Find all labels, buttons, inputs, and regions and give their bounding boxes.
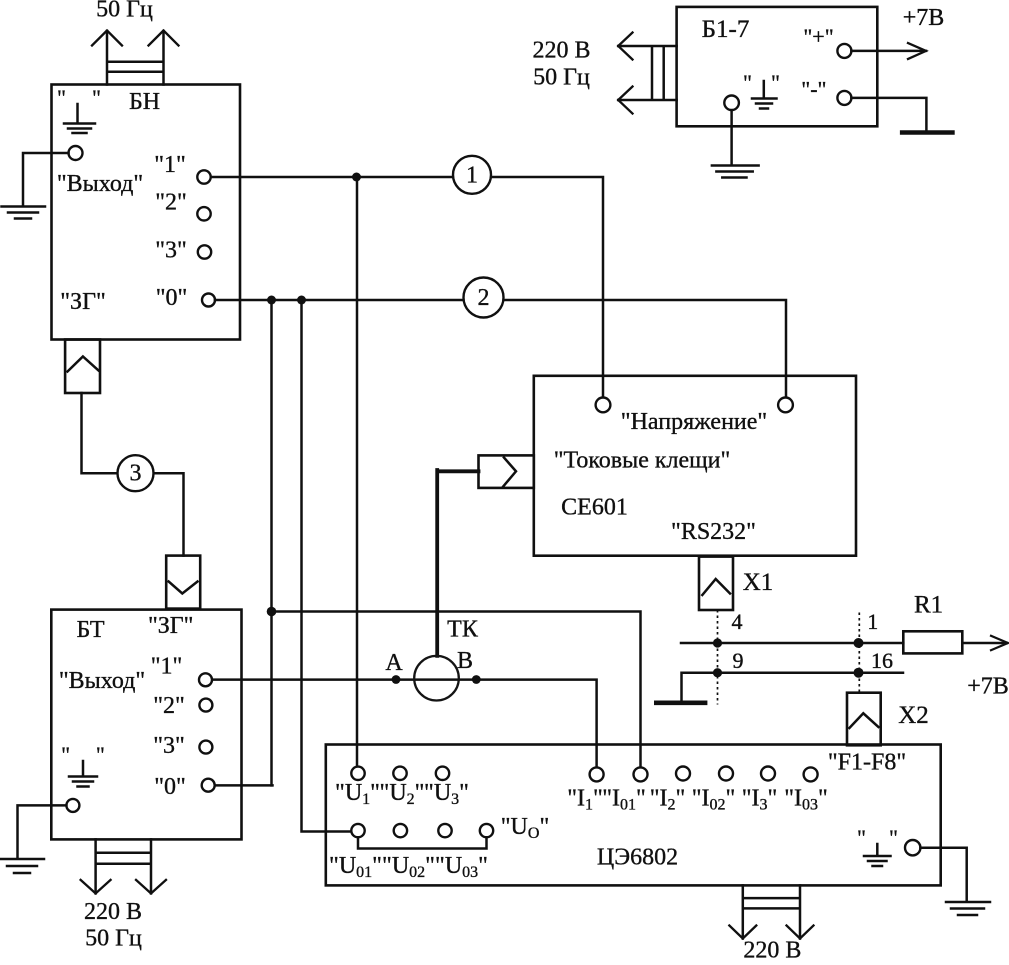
svg-text:"Выход": "Выход" (59, 668, 145, 694)
junction pin 16 (854, 668, 864, 678)
svg-text:"RS232": "RS232" (671, 519, 756, 545)
terminal 0 БН (202, 294, 215, 307)
junction on wire 1 (352, 173, 361, 182)
terminal U1 (351, 767, 364, 780)
svg-text:+7В: +7В (903, 5, 945, 31)
ground symbol inside ЦЭ6802 with quotes (857, 825, 898, 866)
terminal Напряжение-2 (778, 398, 793, 413)
svg-text:16: 16 (871, 648, 893, 673)
cable 220В 50Гц into Б1-7 (618, 33, 676, 114)
junction 0-b (297, 296, 306, 305)
svg-text:1: 1 (466, 163, 478, 189)
svg-text:"3": "3" (155, 238, 187, 264)
junction pin 9 (713, 668, 722, 677)
svg-text:": " (743, 70, 752, 95)
connector X1 (699, 557, 733, 610)
svg-text:"2": "2" (155, 190, 187, 216)
terminal U2 (393, 767, 406, 780)
svg-text:": " (857, 825, 866, 850)
current clamp ТК circle (414, 656, 459, 701)
svg-text:"0": "0" (154, 774, 186, 800)
svg-text:"Напряжение": "Напряжение" (621, 409, 767, 435)
svg-text:"1": "1" (151, 654, 183, 680)
svg-text:"U01": "U01" (329, 853, 382, 881)
svg-text:"0": "0" (156, 285, 188, 311)
link U01 to U0 (358, 837, 487, 848)
svg-text:": " (61, 742, 70, 767)
wire БТ-0 to vertical (215, 784, 273, 787)
terminal U03 (438, 824, 451, 837)
svg-text:"ЗГ": "ЗГ" (148, 613, 194, 639)
terminal I02 (719, 767, 733, 781)
junction at 271,611 (267, 607, 277, 617)
terminal 1 БТ (199, 673, 212, 686)
svg-text:50 Гц: 50 Гц (533, 65, 590, 91)
wire БН-1 to СЕ601 Напряжение (211, 177, 603, 398)
junction pin 4 (713, 638, 722, 647)
svg-text:"3": "3" (153, 733, 185, 759)
svg-text:"F1-F8": "F1-F8" (828, 750, 906, 776)
svg-text:3: 3 (130, 461, 142, 487)
wire junction 0-a down to БТ-0 (270, 300, 273, 785)
svg-text:": " (771, 70, 780, 95)
svg-text:+7В: +7В (967, 674, 1009, 700)
wire pin9 to pin16 (682, 673, 904, 701)
svg-text:ТК: ТК (447, 617, 479, 643)
svg-text:"Токовые клещи": "Токовые клещи" (554, 448, 731, 474)
svg-text:"1": "1" (154, 152, 186, 178)
chassis terminal БТ (66, 799, 79, 812)
wire junction 1 down to U1 (356, 177, 359, 767)
node A dot (392, 675, 401, 684)
meter circle 3 (118, 455, 154, 491)
wire ЦЭ6802 chassis to ground (920, 848, 966, 900)
svg-text:X1: X1 (743, 569, 774, 596)
svg-text:": " (96, 742, 105, 767)
wire Б1-7 chassis to ground (730, 110, 733, 164)
meter circle 2 (464, 278, 504, 318)
svg-text:"U03": "U03" (435, 853, 488, 881)
node B dot (472, 675, 481, 684)
svg-text:220 В: 220 В (743, 938, 801, 961)
svg-text:220 В: 220 В (532, 38, 590, 64)
svg-text:"I2": "I2" (650, 786, 686, 814)
svg-text:9: 9 (733, 648, 744, 673)
wire СЕ601 token clamps connector to ТК (437, 470, 478, 656)
svg-text:1: 1 (867, 609, 878, 634)
wire БН chassis to ground (23, 153, 69, 205)
БН chassis terminal (69, 146, 83, 160)
terminal U3 (436, 767, 449, 780)
wire БТ chassis to ground (18, 805, 67, 857)
block СЕ601 (534, 376, 856, 556)
svg-text:"U3": "U3" (424, 780, 469, 808)
wire junction 0-b down to U01 (302, 300, 352, 832)
meter circle 1 (453, 156, 491, 194)
terminal 0 БТ (202, 779, 215, 792)
chassis terminal Б1-7 (724, 96, 739, 111)
svg-text:СЕ601: СЕ601 (561, 495, 628, 521)
svg-text:"U2": "U2" (380, 780, 425, 808)
svg-text:4: 4 (732, 609, 743, 634)
connector Токовые клещи (left of СЕ601) (479, 455, 534, 488)
svg-text:": " (57, 85, 66, 110)
chassis terminal ЦЭ6802 (905, 840, 920, 855)
terminal I01 (634, 767, 648, 781)
cable 220В out of БТ bottom (81, 839, 166, 893)
svg-text:"I1": "I1" (567, 786, 603, 814)
wire pin4 to R1 (681, 642, 903, 645)
terminal I3 (761, 767, 775, 781)
junction pin 1 (854, 638, 864, 648)
svg-text:"+": "+" (803, 24, 833, 49)
block БТ (51, 610, 241, 840)
svg-text:Б1-7: Б1-7 (702, 16, 750, 43)
terminal I1 (590, 767, 604, 781)
ground (ЦЭ6802) (946, 902, 990, 915)
terminal 1 БН (197, 170, 210, 183)
chassis ground line (pin 9) (656, 700, 705, 705)
svg-text:"I02": "I02" (692, 786, 736, 814)
terminal I2 (676, 767, 690, 781)
terminal "+" Б1-7 (837, 44, 851, 58)
terminal U0 (480, 824, 493, 837)
svg-text:X2: X2 (898, 702, 929, 729)
svg-text:"U02": "U02" (382, 853, 435, 881)
svg-text:220 В: 220 В (84, 899, 142, 925)
svg-text:ЦЭ6802: ЦЭ6802 (597, 845, 678, 871)
terminal 3 БН (198, 245, 211, 258)
terminal U01 (351, 824, 364, 837)
svg-text:БН: БН (129, 89, 160, 115)
terminal I03 (804, 767, 818, 781)
svg-text:"ЗГ": "ЗГ" (60, 289, 106, 315)
connector above БТ (166, 556, 200, 609)
ground symbol inside БТ with quotes (61, 742, 105, 787)
wire БТ-1 through ТК to I1 (212, 680, 597, 768)
svg-text:R1: R1 (914, 592, 943, 619)
svg-text:"I01": "I01" (602, 786, 646, 814)
ground (БТ) (1, 859, 44, 873)
cable 220В out of ЦЭ6802 bottom (729, 885, 813, 938)
resistor R1 (903, 631, 962, 653)
dashed line X1 to pins 4/9 (717, 610, 719, 705)
ground (БН output) (2, 207, 46, 219)
connector X2 (847, 693, 881, 746)
dashed line pins 1/16 to X2 (858, 613, 860, 693)
svg-text:"2": "2" (153, 693, 185, 719)
chassis ground line (Б1-7 minus) (902, 130, 952, 135)
terminal U02 (394, 824, 407, 837)
wire "-" to chassis line (851, 98, 926, 131)
ground (Б1-7) (712, 166, 759, 178)
+7В output arrow (851, 43, 926, 59)
block Б1-7 (677, 7, 878, 126)
svg-text:"-": "-" (801, 77, 826, 102)
terminal Напряжение-1 (596, 398, 611, 413)
wire БН-0 to СЕ601 second terminal (215, 300, 786, 398)
svg-text:50 Гц: 50 Гц (85, 926, 142, 952)
svg-text:50 Гц: 50 Гц (96, 0, 153, 23)
terminal "-" Б1-7 (837, 91, 851, 105)
svg-text:А: А (385, 650, 403, 676)
svg-text:": " (92, 85, 101, 110)
svg-text:"U1": "U1" (335, 780, 380, 808)
connector below БН (65, 340, 100, 394)
svg-text:"I03": "I03" (784, 786, 828, 814)
terminal 2 БТ (199, 699, 212, 712)
cable 50 Гц into БН top (92, 31, 179, 85)
ground symbol inside БН with quotes (57, 85, 101, 133)
wire БН connector to meter 3 to БТ connector (82, 393, 184, 556)
arrow out of R1 (962, 636, 1008, 650)
wire junction to I01 (272, 612, 641, 768)
terminal 2 БН (197, 207, 210, 220)
junction 0-a (267, 296, 276, 305)
svg-text:"I3": "I3" (742, 786, 778, 814)
svg-text:"Выход": "Выход" (57, 171, 143, 197)
svg-text:"UO": "UO" (501, 814, 550, 842)
terminal 3 БТ (199, 741, 212, 754)
svg-text:В: В (457, 648, 473, 674)
block ЦЭ6802 (326, 745, 941, 886)
svg-text:": " (889, 825, 898, 850)
svg-text:2: 2 (478, 285, 490, 311)
ground symbol inside Б1-7 with quotes (743, 70, 780, 109)
block БН (52, 85, 241, 340)
svg-text:БТ: БТ (76, 617, 104, 643)
